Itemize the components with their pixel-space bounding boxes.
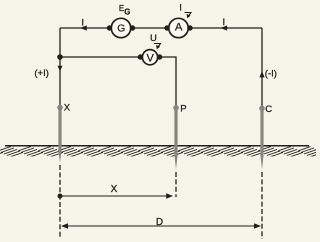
svg-text:I: I [81, 18, 84, 29]
svg-text:G: G [117, 23, 125, 34]
svg-text:X: X [111, 184, 118, 195]
svg-text:P: P [180, 103, 186, 114]
svg-text:G: G [124, 7, 130, 16]
svg-text:A: A [175, 22, 183, 34]
svg-text:V: V [147, 52, 155, 64]
svg-text:(-I): (-I) [265, 69, 277, 80]
svg-text:I: I [179, 3, 182, 14]
svg-text:U: U [150, 33, 157, 44]
svg-text:(+I): (+I) [34, 68, 49, 79]
svg-text:I: I [222, 17, 225, 28]
svg-text:D: D [156, 217, 163, 228]
svg-text:C: C [265, 104, 272, 115]
svg-text:X: X [64, 102, 71, 113]
